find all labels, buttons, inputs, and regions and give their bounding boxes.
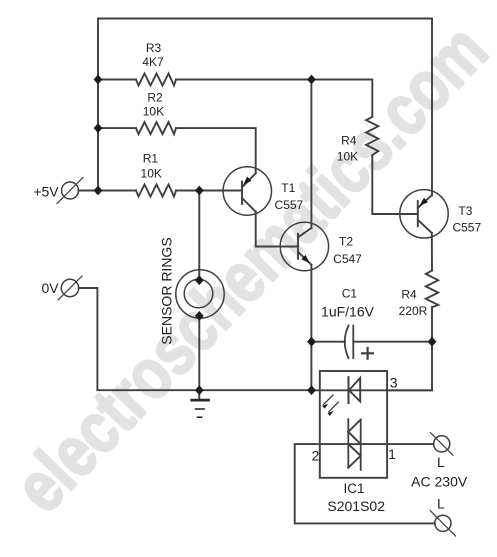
svg-text:R3: R3: [146, 41, 162, 55]
svg-text:1uF/16V: 1uF/16V: [321, 303, 375, 319]
svg-text:L: L: [437, 454, 445, 470]
svg-text:AC 230V: AC 230V: [411, 474, 468, 490]
svg-text:R4: R4: [341, 134, 357, 148]
svg-text:T1: T1: [281, 181, 295, 195]
svg-text:R4: R4: [401, 288, 417, 302]
svg-text:S201S02: S201S02: [327, 498, 385, 514]
svg-text:T2: T2: [339, 234, 353, 248]
svg-text:C547: C547: [333, 252, 362, 266]
svg-text:T3: T3: [458, 204, 472, 218]
svg-text:C557: C557: [452, 221, 481, 235]
svg-text:+5V: +5V: [33, 184, 59, 200]
svg-text:1: 1: [388, 446, 396, 462]
svg-text:C1: C1: [342, 287, 358, 301]
svg-text:220R: 220R: [399, 304, 428, 318]
svg-text:R1: R1: [143, 152, 159, 166]
svg-text:10K: 10K: [337, 150, 358, 164]
svg-text:4K7: 4K7: [142, 55, 164, 69]
svg-text:3: 3: [390, 375, 398, 391]
svg-text:10K: 10K: [141, 167, 162, 181]
svg-text:SENSOR RINGS: SENSOR RINGS: [159, 237, 175, 344]
svg-text:C557: C557: [275, 198, 304, 212]
svg-text:2: 2: [312, 448, 320, 464]
svg-text:R2: R2: [147, 90, 163, 104]
svg-text:L: L: [437, 496, 445, 512]
svg-text:IC1: IC1: [343, 481, 364, 496]
svg-text:10K: 10K: [143, 105, 164, 119]
svg-text:0V: 0V: [41, 280, 59, 296]
